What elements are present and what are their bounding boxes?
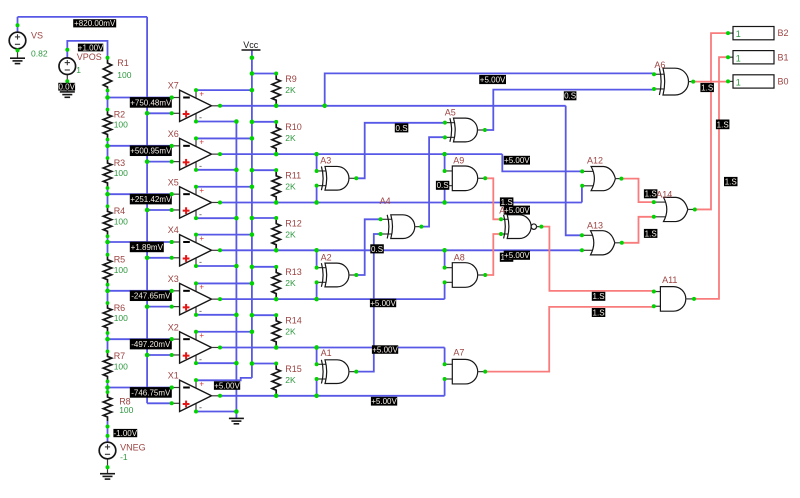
svg-text:2K: 2K <box>285 133 296 143</box>
svg-text:+5.00V: +5.00V <box>504 156 530 165</box>
svg-text:0.S: 0.S <box>371 245 383 254</box>
logic label +5.00V on X3 output net <box>370 299 396 308</box>
logic label 1.S on B1 net <box>716 120 730 130</box>
svg-text:R13: R13 <box>285 267 302 277</box>
svg-text:1.S: 1.S <box>593 308 605 317</box>
gate A2 (XOR) <box>317 268 330 283</box>
svg-text:+5.00V: +5.00V <box>372 345 398 354</box>
gate A13 (OR) <box>582 235 595 250</box>
wire ladder tap to X5 minus input <box>108 193 172 195</box>
svg-text:1: 1 <box>736 29 741 39</box>
svg-text:-: - <box>199 354 202 364</box>
svg-text:A11: A11 <box>662 275 677 285</box>
wire ladder tap to X3 minus input <box>108 290 172 292</box>
logic label 1.S at A10 <box>500 197 514 206</box>
ladder junction nodes <box>105 56 110 394</box>
Vcc bus junction nodes <box>250 71 255 366</box>
svg-text:A4: A4 <box>380 196 391 206</box>
svg-text:A2: A2 <box>321 252 332 262</box>
svg-text:R10: R10 <box>285 122 302 132</box>
input bus junction nodes <box>145 111 150 357</box>
svg-text:R3: R3 <box>114 158 126 168</box>
logic label +5.00V on X6 output net <box>504 156 530 165</box>
wire A9 output to A10 top input <box>485 178 501 219</box>
svg-text:100: 100 <box>114 265 128 275</box>
wire Vcc bus to R10 top <box>252 121 276 123</box>
svg-text:0.0V: 0.0V <box>58 83 75 92</box>
wire A13 output to A14 bottom input <box>621 217 653 243</box>
wire Vcc bus to R14 top <box>252 314 276 316</box>
svg-text:-: - <box>199 113 202 123</box>
svg-text:A13: A13 <box>587 220 603 230</box>
wire input bus vertical <box>146 17 148 403</box>
svg-text:-: - <box>199 403 202 413</box>
svg-text:R11: R11 <box>285 171 301 181</box>
wire X5 top power to Vcc bus <box>196 186 252 188</box>
svg-text:R9: R9 <box>285 74 297 84</box>
svg-text:+: + <box>199 379 204 388</box>
wire X3 output row <box>220 298 445 300</box>
resistor R14 2K <box>272 317 280 346</box>
svg-text:+: + <box>199 283 204 292</box>
wire Vcc bus vertical <box>251 58 253 378</box>
pin nodes X2 <box>170 330 222 365</box>
wire X7 output row <box>220 105 566 107</box>
voltage source VPOS <box>66 74 68 92</box>
voltage source VS <box>17 49 19 58</box>
svg-text:X7: X7 <box>168 81 179 91</box>
svg-text:0.S: 0.S <box>437 181 449 190</box>
resistor R6 100 <box>103 304 111 332</box>
op-amp comparator X1 <box>172 379 220 412</box>
wire A5 output to A6 bottom input <box>485 90 654 130</box>
wire VS top to input bus <box>18 16 148 18</box>
wire Vcc bus to R11 top <box>252 169 276 171</box>
svg-text:R4: R4 <box>114 206 126 216</box>
wire Vcc stem <box>251 50 253 58</box>
pin nodes X7 <box>170 88 222 123</box>
ground below VS <box>10 58 25 63</box>
wire Vcc bus to R9 top <box>252 73 276 75</box>
output indicator B1 <box>728 56 733 58</box>
ground bus junction nodes <box>234 119 239 414</box>
svg-text:-: - <box>199 257 202 267</box>
wire input bus to X3 plus input <box>147 306 172 308</box>
resistor R3 100 <box>103 159 111 187</box>
resistor R12 2K <box>272 220 280 249</box>
svg-text:-746.75mV: -746.75mV <box>131 388 171 397</box>
svg-text:B2: B2 <box>778 28 789 38</box>
wire X2 output row <box>220 346 445 348</box>
ground below VPOS <box>60 92 75 97</box>
logic label 1.S on A11 top input net <box>592 292 606 301</box>
wire A8 bottom input to X3 row <box>444 282 446 299</box>
wire ladder tap to X2 minus input <box>108 338 172 340</box>
pin nodes X6 <box>170 136 222 171</box>
wire Vcc jog to X1 power <box>195 378 252 380</box>
voltage label +1.00V <box>78 44 103 52</box>
svg-text:1: 1 <box>76 65 81 75</box>
svg-text:+820.00mV: +820.00mV <box>74 19 116 28</box>
svg-text:2K: 2K <box>285 182 296 192</box>
gate A14 (OR) <box>654 202 668 217</box>
gate A10 (XNOR) <box>501 219 508 234</box>
svg-text:+1.89mV: +1.89mV <box>131 243 164 252</box>
pin nodes X1 <box>170 378 222 413</box>
svg-text:A12: A12 <box>587 155 603 165</box>
svg-text:X3: X3 <box>168 274 179 284</box>
logic label +5.00V on X1 output net <box>371 397 397 406</box>
svg-text:1.S: 1.S <box>717 120 729 129</box>
svg-text:1: 1 <box>736 53 741 63</box>
svg-text:1: 1 <box>736 78 741 88</box>
wire X7 top power to Vcc bus <box>196 89 252 91</box>
wire Vcc bus to R15 top <box>252 363 276 365</box>
wire VPOS to ladder top <box>67 41 107 59</box>
gate A5 (XOR) <box>445 123 458 138</box>
voltage source VNEG <box>107 459 109 474</box>
svg-text:A6: A6 <box>654 60 665 70</box>
resistor R11 2K <box>272 172 280 201</box>
svg-text:1.S: 1.S <box>701 83 713 92</box>
wire X1 bottom power to ground bus <box>196 411 236 413</box>
voltage label +500.95mV <box>130 145 172 156</box>
svg-text:R14: R14 <box>285 316 302 326</box>
voltage label -497.20mV <box>130 339 172 350</box>
wire input bus to X6 plus input <box>147 161 172 163</box>
wire X2 row to A1 top input <box>316 347 318 364</box>
resistor R8 100 <box>103 393 111 421</box>
svg-text:R15: R15 <box>285 364 302 374</box>
gate A7 (AND) <box>445 364 455 379</box>
svg-text:+: + <box>199 331 204 340</box>
wire X4 row to A2 top input <box>316 250 318 268</box>
svg-text:2K: 2K <box>285 85 296 95</box>
wire X7 net down to A13 top input <box>566 106 582 236</box>
svg-text:A8: A8 <box>454 252 465 262</box>
gate A12 (OR) <box>582 171 595 185</box>
wire X5 row up to A12 bottom input <box>581 186 583 203</box>
svg-text:+5.00V: +5.00V <box>370 299 396 308</box>
wire A8 output to A10 bottom input <box>485 234 501 275</box>
voltage label +820.00mV <box>73 19 116 27</box>
logic label 0.S on A5 output net <box>564 91 577 100</box>
logic label 1.S on B0 net <box>700 83 714 92</box>
logic label 1.S on A14 top input net <box>644 189 658 198</box>
logic label +5.00V at A8 <box>504 251 530 260</box>
svg-text:-247.65mV: -247.65mV <box>131 292 171 301</box>
logic label +5.00V on A6 top net <box>479 75 506 84</box>
svg-text:A1: A1 <box>321 348 332 358</box>
svg-text:+5.00V: +5.00V <box>371 397 397 406</box>
ground below VNEG <box>100 474 115 479</box>
voltage label -247.65mV <box>130 290 172 301</box>
svg-text:A5: A5 <box>445 107 456 117</box>
svg-text:2K: 2K <box>285 229 296 239</box>
svg-text:+: + <box>199 138 204 147</box>
wire A6 output to B0 <box>693 81 728 83</box>
logic label 1.S on A14 bottom input net <box>644 229 658 238</box>
wire ladder tap to X7 minus input <box>108 97 172 99</box>
resistor R15 2K <box>272 365 280 394</box>
wire input bus to X7 plus input <box>147 112 172 114</box>
svg-text:+5.00V: +5.00V <box>504 206 530 215</box>
resistor R4 100 <box>103 207 111 235</box>
svg-text:100: 100 <box>114 362 128 372</box>
svg-text:2K: 2K <box>285 278 296 288</box>
wire X3 bottom power to ground bus <box>196 314 236 316</box>
wire X6 bottom power to ground bus <box>196 169 236 171</box>
logic label +5.00V at A10 <box>504 206 530 215</box>
resistor R9 2K <box>272 75 280 104</box>
svg-text:R6: R6 <box>114 303 126 313</box>
svg-text:+5.00V: +5.00V <box>504 251 530 260</box>
voltage label +251.42mV <box>130 194 172 205</box>
wire X5 bottom power to ground bus <box>196 217 236 219</box>
wire X4 row to A8 top input <box>444 250 446 268</box>
logic label 1.S on A11 bottom input net <box>592 308 606 317</box>
svg-text:B0: B0 <box>778 77 789 87</box>
svg-text:X4: X4 <box>168 225 179 235</box>
gate A3 (XOR) <box>317 171 330 186</box>
svg-text:R2: R2 <box>114 109 126 119</box>
wire A10 output to A11 top input <box>541 227 653 291</box>
resistor R2 100 <box>103 111 111 139</box>
svg-text:X5: X5 <box>168 177 179 187</box>
resistor R13 2K <box>272 268 280 297</box>
svg-text:2K: 2K <box>285 375 296 385</box>
svg-text:0.S: 0.S <box>396 124 408 133</box>
wire X4 bottom power to ground bus <box>196 265 236 267</box>
svg-text:Vcc: Vcc <box>243 40 259 50</box>
svg-text:+: + <box>199 89 204 98</box>
wire X4 top power to Vcc bus <box>196 234 252 236</box>
wire A1 output to A4 bottom input <box>356 234 380 372</box>
wire X7 row up to A6 top input <box>325 73 654 105</box>
gate A8 (AND) <box>445 268 455 283</box>
logic label +5.00V on X2 output net <box>372 345 398 354</box>
logic label 1.S on B2 net <box>724 177 738 186</box>
svg-text:100: 100 <box>117 70 131 80</box>
svg-text:A3: A3 <box>320 155 331 165</box>
wire X1 output row <box>220 395 445 397</box>
svg-text:+750.48mV: +750.48mV <box>130 98 172 107</box>
wire A12 output to A14 top input <box>621 179 653 203</box>
svg-text:VPOS: VPOS <box>77 52 102 62</box>
wire A4 output to A5 bottom input <box>421 137 445 226</box>
voltage label -746.75mV <box>130 387 172 398</box>
wire Vcc bus to R13 top <box>252 266 276 268</box>
output indicator B0 <box>728 80 733 82</box>
svg-text:+5.00V: +5.00V <box>480 75 506 84</box>
wire input bus to X5 plus input <box>147 209 172 211</box>
output indicator B2 <box>728 32 733 34</box>
svg-text:A: A <box>499 205 505 215</box>
svg-text:B1: B1 <box>778 52 789 62</box>
svg-text:-1.00V: -1.00V <box>114 429 138 438</box>
gate A11 (AND) <box>654 292 663 307</box>
svg-text:1.S: 1.S <box>725 177 737 186</box>
gate A9 (AND) <box>445 171 455 186</box>
logic label 0.S on A5 top input net <box>395 123 409 132</box>
wire ladder tap to X6 minus input <box>108 145 172 147</box>
resistor R7 100 <box>103 352 111 380</box>
svg-text:1.S: 1.S <box>645 190 657 199</box>
gate A4 (XOR) <box>381 219 396 234</box>
svg-text:R5: R5 <box>114 255 126 265</box>
wire A2 output to A4 top input <box>356 219 380 275</box>
voltage label +750.48mV <box>130 97 172 108</box>
op-amp comparator X7 <box>172 89 220 122</box>
op-amp comparator X4 <box>172 234 220 267</box>
svg-text:-1: -1 <box>120 452 128 462</box>
svg-text:A9: A9 <box>453 155 464 165</box>
logic label +5.00V on X1 supply net <box>214 381 240 390</box>
wire A14 output to B2 <box>695 33 728 209</box>
wire input bus to X4 plus input <box>147 257 172 259</box>
wire A9 bottom input to X5 row <box>444 186 446 203</box>
wire X2 row to A7 top input <box>444 347 446 364</box>
logic label 0.S on A9 bottom input net <box>436 181 449 190</box>
wire X6 row to A3 top input <box>316 154 318 171</box>
wire X6 row to A9 top input <box>444 154 446 171</box>
wire X2 bottom power to ground bus <box>196 362 236 364</box>
wire ladder tap to X1 minus input <box>108 387 172 389</box>
wire X2 top power to Vcc bus <box>196 331 252 333</box>
svg-text:0.S: 0.S <box>564 92 576 101</box>
svg-text:VNEG: VNEG <box>120 442 146 452</box>
svg-text:+5.00V: +5.00V <box>214 381 240 390</box>
svg-text:+: + <box>199 234 204 243</box>
svg-text:R1: R1 <box>117 58 129 68</box>
svg-text:R12: R12 <box>285 218 302 228</box>
resistor R1 100 <box>103 59 111 91</box>
svg-text:100: 100 <box>114 168 128 178</box>
svg-text:X6: X6 <box>168 129 179 139</box>
svg-text:VS: VS <box>31 31 43 41</box>
voltage label -1.00V <box>113 429 137 437</box>
pin nodes X5 <box>170 185 222 220</box>
wire ladder to VNEG <box>107 421 109 442</box>
wire ladder tap to X4 minus input <box>108 241 172 243</box>
voltage label +1.89mV <box>130 242 164 253</box>
wire A11 output to B1 <box>694 57 728 299</box>
wire A3 bottom input to X5 row <box>316 186 318 203</box>
svg-text:-: - <box>199 306 202 316</box>
svg-text:A14: A14 <box>656 189 672 199</box>
logic label 0.S on A4 bottom input net <box>370 244 384 253</box>
svg-text:R7: R7 <box>114 351 126 361</box>
pin nodes X4 <box>170 233 222 268</box>
wire X6 top power to Vcc bus <box>196 137 252 139</box>
svg-text:100: 100 <box>114 217 128 227</box>
gate A1 (XOR) <box>317 364 330 379</box>
voltage label 0.0V <box>58 83 75 91</box>
resistor R5 100 <box>103 256 111 284</box>
svg-text:+251.42mV: +251.42mV <box>130 195 172 204</box>
wire X7 bottom power to ground bus <box>196 121 236 123</box>
svg-text:1.S: 1.S <box>645 229 657 238</box>
svg-text:100: 100 <box>114 313 128 323</box>
wire input bus to X1 plus input <box>147 402 172 404</box>
svg-text:X2: X2 <box>168 322 179 332</box>
wire Vcc bus to R12 top <box>252 217 276 219</box>
svg-text:X1: X1 <box>168 371 179 381</box>
wire input bus to X2 plus input <box>147 354 172 356</box>
pin nodes X3 <box>170 281 222 316</box>
svg-text:0.82: 0.82 <box>31 49 48 59</box>
wire X6 row down to A12 top input <box>502 154 582 171</box>
gate A6 (XOR) <box>654 74 668 89</box>
wire X5 output row <box>220 201 582 203</box>
svg-text:+500.95mV: +500.95mV <box>130 147 172 156</box>
wire X3 top power to Vcc bus <box>196 282 252 284</box>
wire VS source stub <box>17 17 19 33</box>
svg-text:100: 100 <box>119 405 133 415</box>
op-amp comparator X2 <box>172 331 220 364</box>
wire A7 output to A11 bottom input <box>485 307 654 372</box>
op-amp comparator X3 <box>172 283 220 316</box>
resistor R10 2K <box>272 123 280 152</box>
wire ladder segments <box>107 91 109 111</box>
svg-text:-497.20mV: -497.20mV <box>131 340 171 349</box>
wire A2 bottom input to X3 row <box>316 282 318 299</box>
svg-text:A7: A7 <box>453 347 464 357</box>
junction nodes on comparator output rows <box>314 104 447 399</box>
op-amp comparator X6 <box>172 138 220 171</box>
svg-text:1.S: 1.S <box>593 292 605 301</box>
wire A1 bottom input to X1 row <box>316 379 318 396</box>
svg-text:-: - <box>199 209 202 219</box>
op-amp comparator X5 <box>172 186 220 219</box>
svg-text:-: - <box>199 161 202 171</box>
wire A3 output to A5 top input <box>356 123 445 179</box>
svg-text:+1.00V: +1.00V <box>78 43 104 52</box>
wire ground bus vertical <box>235 122 237 419</box>
svg-text:+: + <box>199 186 204 195</box>
svg-text:2K: 2K <box>285 327 296 337</box>
ground of comparator supply bus <box>229 418 244 423</box>
wire X6 output row <box>220 153 502 155</box>
logic label 1.S at A8 <box>500 253 514 262</box>
svg-text:100: 100 <box>114 120 128 130</box>
wire X4 output row to A13 <box>220 249 582 251</box>
wire A7 bottom input to X1 row <box>444 379 446 396</box>
